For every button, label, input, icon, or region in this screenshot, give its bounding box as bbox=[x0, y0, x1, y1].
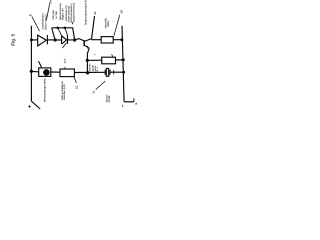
node right rail lamp row bbox=[122, 71, 125, 74]
pointer to label cols bbox=[46, 3, 50, 21]
wire lamp to R2 bbox=[51, 71, 60, 73]
pointer 7 tick bbox=[64, 61, 66, 69]
node J2 bbox=[73, 38, 76, 41]
collector lead Q1 bbox=[84, 16, 94, 41]
node J1 bbox=[54, 38, 57, 41]
terminal tick bbox=[133, 98, 135, 102]
svg-text:Vergleichswert12: Vergleichswert12 bbox=[72, 2, 75, 22]
stub to V2 cathode bbox=[65, 28, 68, 35]
base wire J2 to Q1 bbox=[75, 39, 85, 41]
thyristor V2 bbox=[62, 35, 68, 44]
right rail bottom lead bbox=[124, 101, 134, 103]
pointer 13 bbox=[74, 77, 77, 83]
supply lead diagonal bbox=[31, 101, 40, 109]
svg-text:24: 24 bbox=[48, 0, 52, 3]
svg-text:9: 9 bbox=[29, 14, 33, 16]
wire R1 to right rail bbox=[113, 39, 122, 41]
plus terminal bbox=[28, 105, 31, 108]
node right rail row P bbox=[122, 58, 125, 61]
resistor R3 bbox=[102, 57, 116, 64]
emitter lead Q1 bbox=[84, 45, 89, 48]
svg-text:zu Takt: zu Takt bbox=[55, 11, 58, 19]
row P wire left bbox=[87, 59, 101, 61]
right rail bbox=[122, 26, 124, 102]
row P wire right bbox=[116, 59, 124, 61]
diode D1 bbox=[38, 35, 48, 46]
node top link left bbox=[56, 27, 59, 30]
riser J1 to top link bbox=[52, 28, 55, 40]
pointer 2 into box bbox=[39, 61, 42, 67]
lamp box bbox=[39, 68, 51, 77]
wire V2 to J2 bbox=[68, 39, 75, 41]
crystal body bbox=[106, 69, 108, 77]
gate lead V2 bbox=[62, 43, 66, 48]
pointer 14 to R1 bbox=[114, 15, 120, 36]
svg-text:Fig. 5: Fig. 5 bbox=[10, 34, 15, 46]
svg-text:Beleuchtungsstärke: Beleuchtungsstärke bbox=[44, 77, 47, 102]
wire collector to R1 bbox=[92, 39, 102, 41]
svg-text:oszill.: oszill. bbox=[108, 95, 111, 102]
emitter arrowhead bbox=[87, 45, 90, 48]
left supply rail bbox=[30, 26, 32, 101]
pointer tick above R3 bbox=[112, 54, 113, 57]
svg-text:13: 13 bbox=[75, 85, 79, 89]
svg-text:a: a bbox=[135, 101, 137, 105]
node emitter lamp row bbox=[86, 71, 89, 74]
lamp row wire from rail bbox=[31, 70, 38, 72]
svg-text:Wdst.: Wdst. bbox=[107, 20, 110, 27]
stub to V2 anode bbox=[58, 28, 62, 36]
svg-text:T.: T. bbox=[94, 53, 97, 55]
svg-text:14: 14 bbox=[119, 10, 123, 14]
junction tick after crystal bbox=[113, 70, 115, 74]
lamp dot bbox=[43, 69, 50, 76]
wire rail to diode D1 bbox=[31, 39, 37, 41]
pointer 11 bbox=[96, 81, 106, 90]
svg-text:Arbeits-: Arbeits- bbox=[89, 62, 92, 71]
riser J2 to top link bbox=[73, 28, 75, 41]
top link wire bbox=[52, 27, 73, 29]
node right rail diode row bbox=[120, 38, 123, 41]
emitter vertical bbox=[87, 48, 89, 73]
tick above right corner bbox=[71, 22, 73, 24]
resistor R2 bbox=[60, 69, 74, 77]
svg-text:10: 10 bbox=[93, 11, 97, 15]
crystal plates bbox=[105, 70, 110, 75]
lamp row wire middle bbox=[74, 71, 105, 73]
transistor Q1 base bar bbox=[83, 40, 85, 46]
svg-text:Temperaturkomp.NTC: Temperaturkomp.NTC bbox=[84, 0, 87, 25]
wire J1 to V2 bbox=[55, 39, 62, 41]
node left rail diode row bbox=[30, 38, 33, 41]
node left rail lamp row bbox=[30, 70, 33, 73]
svg-text:R. 4: R. 4 bbox=[96, 66, 99, 71]
node emitter row P bbox=[86, 59, 89, 62]
svg-text:11: 11 bbox=[92, 90, 96, 93]
small mark below corner bbox=[121, 105, 123, 107]
svg-text:zwecken (rot): zwecken (rot) bbox=[63, 84, 66, 100]
node top link right bbox=[64, 27, 67, 30]
lamp row wire right bbox=[110, 71, 124, 73]
wire D1 to J1 bbox=[47, 39, 55, 41]
resistor R1 bbox=[101, 37, 113, 43]
pointer 9 to D1 bbox=[32, 16, 40, 31]
